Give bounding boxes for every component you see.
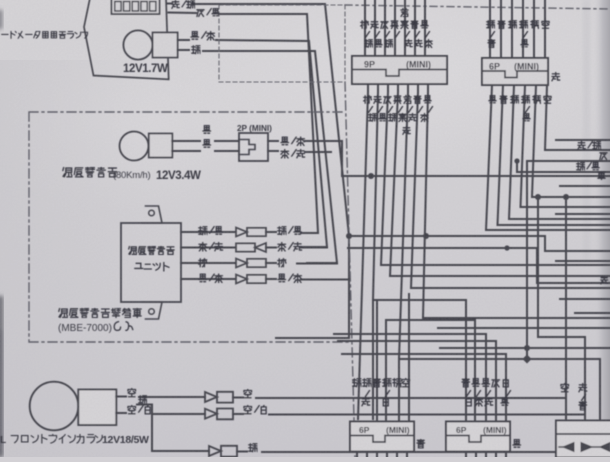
meter connector CN1 (5 square pins) — [112, 0, 160, 14]
junction dot (517,161) — [514, 158, 519, 163]
right page-edge shadow — [594, 0, 610, 457]
diamond junction (527,359) — [523, 355, 532, 364]
H-run y248 (茶/赤) from riser to right ladder — [348, 248, 537, 283]
labels 黒/茶 茶/赤 after CN2 — [281, 137, 289, 145]
CN6 wire labels 青/白 黒/茶 黒/赤 灰 白/黒 — [462, 378, 470, 387]
U1 row labels right — [278, 227, 287, 235]
bulb L3 socket — [78, 390, 116, 426]
connector CN7 far-right (with diode arrows) — [556, 421, 610, 458]
caption 速度警告灯(80Km/h) kanji part — [63, 167, 72, 176]
CN7 wire labels 空 赤/青 — [561, 383, 569, 392]
のみ after (MBE-7000) — [114, 322, 120, 331]
ladder run y161 with stub — [517, 161, 610, 172]
CN5 label 青 (right) — [417, 439, 425, 448]
illumination bulb L1 — [123, 30, 152, 59]
CN4 upper wire labels 緑/青 青 緑 緑/黒 橙 空 — [487, 21, 495, 29]
U1 row labels left: 緑/黒 茶/赤 桃 黒/茶 — [199, 227, 208, 235]
6P#1 pin6 vertical — [408, 294, 410, 422]
CN3 lower wire labels — [364, 96, 372, 104]
connector CN4 6P(MINI) box — [482, 58, 548, 85]
ladder run y299 far right — [560, 298, 610, 300]
speedometer housing (partial, cut by top edge) — [84, 0, 169, 79]
trunk x527 down to diamond junction y359 — [526, 161, 528, 359]
turn signal bulb L3 — [30, 382, 79, 431]
U1 row4 黒/茶 wire, T-joins 赤/緑 riser — [181, 278, 349, 281]
wire L2 to 2P connector (黒 x2) — [172, 141, 239, 151]
diode D3 — [209, 446, 237, 457]
ladder y348 with dot — [440, 347, 610, 349]
diode D2 — [205, 409, 233, 420]
wire label 緑 (bulb L1) — [192, 46, 201, 54]
wire label 赤/緑 (top) — [172, 0, 179, 8]
connector CN6 6P(MINI) bottom-middle box — [446, 422, 510, 452]
labels 黒 黒 (L2 wires) — [203, 125, 211, 133]
wire 緑 net (slants down to unit row3) — [178, 50, 337, 263]
far-right trunk x566 (junction at y197) — [565, 197, 567, 419]
dashed instrument-cluster boundary box — [219, 5, 345, 82]
connector CN3 9P(MINI) box — [352, 56, 447, 84]
CN5 wire labels 緑 緑/赤 青 緑/白 橙 空 — [353, 379, 362, 387]
connector CN5 6P(MINI) bottom-left box — [350, 422, 414, 452]
6P#1 pin3 vertical — [376, 301, 378, 422]
ladder run y140 — [556, 139, 610, 141]
9P pin6 corner to ladder y288 — [411, 92, 610, 288]
section border (dash-dot box 速度警告灯装着車) — [29, 112, 350, 342]
CN4 pins above (6 wires to top edge) — [489, 0, 491, 58]
junction dot (426,236) — [423, 233, 429, 239]
wire 黒/茶 net (bulb L1, slants down to unit row2) — [178, 40, 327, 247]
U1 top mounting tab — [142, 206, 162, 223]
wire 空/白 row: socket to diode D2 to x585 — [116, 413, 585, 415]
ladder run y283 (from x537) — [537, 282, 610, 284]
ladder run y261 — [556, 260, 610, 262]
junction dot (566,197) — [563, 194, 569, 200]
main vertical dash-dot divider — [345, 82, 355, 457]
wire label 灰/黒 — [197, 10, 204, 17]
ladder run y313 — [575, 312, 610, 314]
wire 赤/緑 net (CN1 pin, slants down to unit riser x349) — [168, 4, 349, 339]
wire 空 row: socket to diode D1 to far right pin — [116, 397, 566, 399]
6P#2 pins3-5 feeds y334/y341/y348gap — [334, 334, 486, 422]
caption 速度警告灯装着車 — [59, 308, 68, 317]
staircase y320 feed to 6P#2 pin2 + 6P#1 pin4 — [386, 320, 475, 422]
labels 空 緑 空/白 (L3) — [128, 388, 136, 397]
9P pin5 slant to diamond run y359 + 6P#1 pin5 — [399, 92, 408, 422]
junction dot (371,176) — [368, 173, 374, 179]
ladder run y337 + corner down to far-right pin x585 — [538, 197, 585, 419]
CN6 label 黒 (right) — [513, 439, 521, 447]
edge labels 赤/緑 灰 緑/黒 — [578, 141, 585, 149]
top-right chain-line fragment — [345, 5, 610, 9]
long verticals 9P to bottom 6P#1 (pins1-2) — [358, 92, 378, 419]
left photo edge dark strip — [0, 10, 3, 457]
wire label 黒/茶 (bulb L1) — [191, 31, 199, 39]
diamond run y359 to far-right pin x600 — [399, 359, 600, 419]
wire 茶/赤 from CN2, joins 緑 riser — [268, 151, 331, 152]
caption フロントウインカランプ — [11, 436, 18, 443]
wire 灰/黒 net (slants down to unit row1) — [169, 13, 319, 234]
speed warning unit U1 box — [121, 223, 181, 302]
CN3 upper wire labels 桃/緑 赤/黒 灰/緑 黄/赤 若葉/赤 青/赤 黒/茶 — [361, 21, 369, 29]
labels after diodes D1 D2 D3 — [244, 389, 252, 398]
U1 box text 速度警告灯 / ユニット — [129, 246, 137, 254]
junction dot (527,348) — [524, 345, 530, 351]
U1 row3 桃 wire + inline connector, joins 緑 riser — [181, 262, 337, 265]
caption ードメーター照明ランプ (top-left) — [2, 33, 9, 35]
CN6 pins below — [466, 452, 506, 458]
CN4 pins below, cornering right into ladder runs — [486, 85, 610, 230]
faint paper crease — [583, 0, 590, 260]
bulb L1 socket — [153, 33, 178, 58]
junction dot (507,248) — [504, 245, 509, 250]
CN5 pins below — [357, 452, 407, 458]
warning bulb L2 — [120, 132, 149, 161]
ladder y328 — [438, 327, 610, 329]
9P pin7 corner to ladder y318 — [423, 92, 610, 318]
diode D1 (arrow connector) — [205, 392, 233, 403]
ladder run y172 — [517, 171, 610, 173]
CN4 lower wire labels 黒 青 緑 緑/黒 橙 空 — [489, 95, 496, 102]
H-run y236 (緑/黒) from riser dot to right ladder — [349, 236, 610, 251]
ladder run y214 — [556, 213, 610, 215]
9P pin3 corner to ladder y265 — [381, 92, 610, 265]
CN3 pins below — [368, 84, 428, 92]
wire 黒/茶 from CN2 right, to ladder line y176 — [268, 141, 610, 176]
CN4 label 赤 (right) — [552, 72, 560, 81]
subtle left and bottom shading — [0, 0, 1, 1]
U1 bottom mounting tab — [142, 302, 162, 319]
U1 row2 茶/赤 wire + inline connector (reversed) — [181, 247, 327, 249]
U1 row1 緑/黒 wire + inline connector — [181, 232, 318, 233]
ladder run y186 — [560, 185, 610, 187]
CN3 pins above (7 wires to top edge) — [364, 0, 366, 56]
wire 緑 branch, down to third row with diode D3 — [137, 405, 554, 453]
junction dot (538,197) — [535, 194, 541, 200]
bulb L2 socket — [149, 134, 173, 158]
branch y300 from pin2 to 6P#2 pin1 — [373, 300, 466, 422]
edge label 赤 fragment at y279 — [601, 276, 608, 284]
connector CN2 2P(MINI) — [239, 133, 268, 161]
9P pin4 corner to ladder y276 — [390, 92, 610, 276]
junction dot (349,236) — [346, 233, 352, 239]
